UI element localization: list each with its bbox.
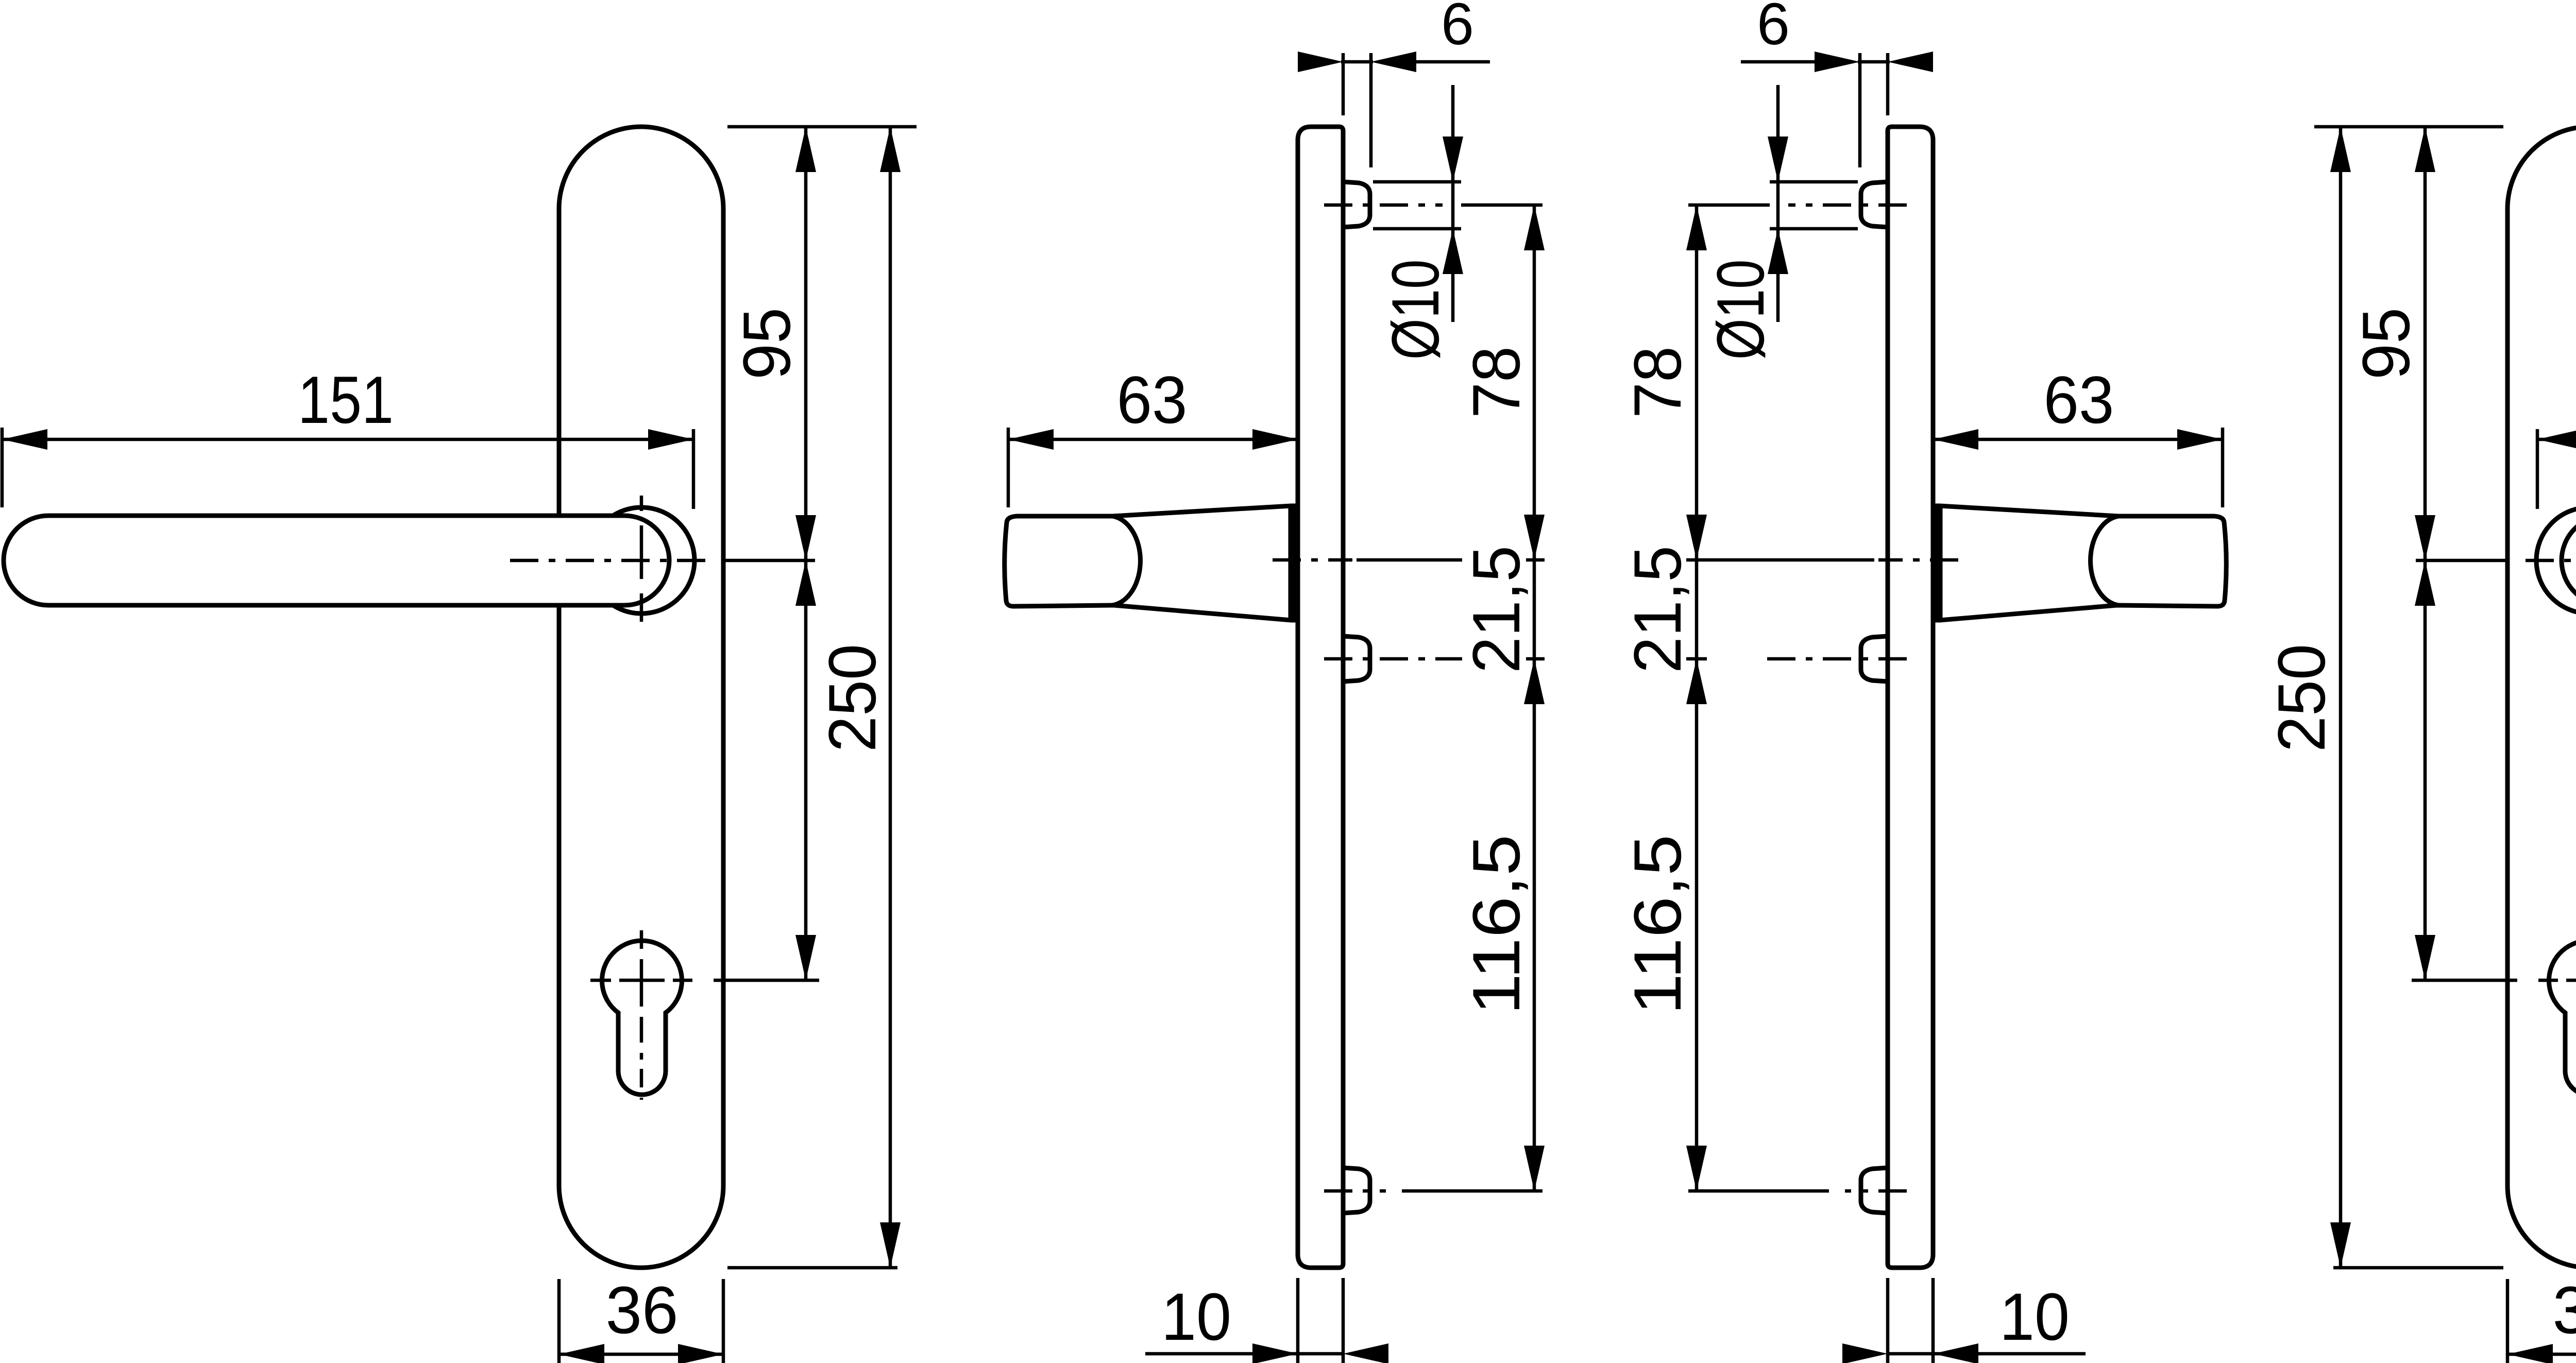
svg-text:6: 6 — [1441, 0, 1474, 57]
svg-text:6: 6 — [1757, 0, 1790, 57]
svg-text:36: 36 — [606, 1272, 679, 1348]
svg-text:36: 36 — [2553, 1272, 2576, 1348]
svg-text:63: 63 — [2044, 362, 2114, 437]
svg-text:63: 63 — [1117, 362, 1188, 437]
svg-text:Ø10: Ø10 — [1378, 260, 1453, 360]
svg-text:116,5: 116,5 — [1459, 834, 1534, 1015]
svg-text:21,5: 21,5 — [1620, 546, 1695, 673]
svg-text:10: 10 — [1999, 1279, 2070, 1354]
svg-text:250: 250 — [2264, 644, 2339, 752]
svg-text:95: 95 — [2348, 308, 2424, 380]
svg-text:Ø10: Ø10 — [1703, 260, 1778, 360]
svg-text:250: 250 — [815, 644, 890, 752]
svg-text:116,5: 116,5 — [1620, 834, 1695, 1015]
svg-text:78: 78 — [1459, 346, 1534, 418]
svg-text:10: 10 — [1161, 1279, 1231, 1354]
svg-text:21,5: 21,5 — [1459, 546, 1534, 673]
svg-text:95: 95 — [729, 308, 804, 380]
svg-text:78: 78 — [1620, 346, 1695, 418]
svg-text:151: 151 — [298, 362, 394, 437]
